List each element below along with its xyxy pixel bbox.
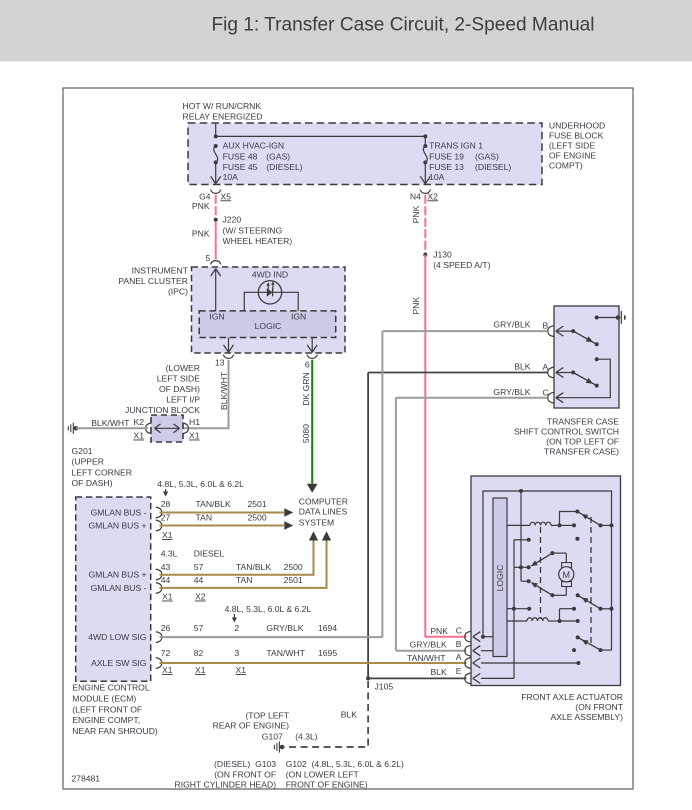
svg-text:AXLE SW SIG: AXLE SW SIG [91, 658, 147, 668]
svg-text:X2: X2 [195, 592, 206, 602]
svg-text:X5: X5 [221, 191, 232, 201]
svg-text:G201: G201 [72, 446, 93, 456]
svg-text:X2: X2 [427, 191, 438, 201]
svg-text:X1: X1 [162, 592, 173, 602]
svg-text:UNDERHOOD: UNDERHOOD [549, 121, 605, 131]
svg-text:PNK: PNK [192, 229, 210, 239]
svg-text:(LEFT SIDE: (LEFT SIDE [549, 141, 595, 151]
svg-text:GMLAN BUS -: GMLAN BUS - [91, 583, 147, 593]
svg-text:43: 43 [161, 562, 171, 572]
svg-text:WHEEL HEATER): WHEEL HEATER) [223, 236, 293, 246]
svg-text:SHIFT CONTROL SWITCH: SHIFT CONTROL SWITCH [514, 427, 619, 437]
svg-text:MODULE (ECM): MODULE (ECM) [72, 694, 136, 704]
svg-text:G102 (4.8L, 5.3L, 6.0L & 6.2L: G102 (4.8L, 5.3L, 6.0L & 6.2L) [286, 759, 404, 769]
svg-text:PNK: PNK [430, 626, 448, 636]
svg-text:GRY/BLK: GRY/BLK [266, 623, 303, 633]
svg-text:GMLAN BUS +: GMLAN BUS + [88, 521, 146, 531]
svg-text:PANEL CLUSTER: PANEL CLUSTER [118, 276, 188, 286]
svg-text:(LEFT FRONT OF: (LEFT FRONT OF [72, 704, 142, 714]
svg-text:(ON LOWER LEFT: (ON LOWER LEFT [286, 769, 360, 779]
svg-text:ENGINE COMPT,: ENGINE COMPT, [72, 715, 140, 725]
svg-text:(DIESEL): (DIESEL) [266, 162, 302, 172]
svg-text:5: 5 [206, 253, 211, 263]
svg-text:BLK: BLK [514, 362, 531, 372]
svg-text:M: M [563, 570, 571, 580]
svg-text:(DIESEL): (DIESEL) [475, 162, 511, 172]
svg-text:TAN: TAN [236, 575, 253, 585]
svg-text:(TOP LEFT: (TOP LEFT [245, 711, 289, 721]
svg-text:2500: 2500 [284, 562, 303, 572]
svg-text:INSTRUMENT: INSTRUMENT [132, 266, 189, 276]
svg-text:2501: 2501 [248, 499, 267, 509]
svg-text:TAN/BLK: TAN/BLK [196, 499, 231, 509]
svg-text:(GAS): (GAS) [475, 152, 499, 162]
svg-text:(GAS): (GAS) [266, 152, 290, 162]
svg-text:IGN: IGN [209, 312, 224, 322]
svg-text:(ON TOP LEFT OF: (ON TOP LEFT OF [546, 437, 619, 447]
svg-text:1695: 1695 [318, 648, 337, 658]
svg-text:X1: X1 [162, 665, 173, 675]
svg-text:H1: H1 [189, 417, 200, 427]
svg-text:LEFT I/P: LEFT I/P [166, 395, 200, 405]
svg-text:IGN: IGN [291, 312, 306, 322]
svg-text:2: 2 [234, 623, 239, 633]
svg-text:X1: X1 [236, 665, 247, 675]
svg-text:1694: 1694 [318, 623, 337, 633]
svg-text:FUSE 45: FUSE 45 [223, 162, 258, 172]
svg-text:3: 3 [234, 648, 239, 658]
svg-text:LEFT CORNER: LEFT CORNER [72, 467, 132, 477]
svg-text:13: 13 [215, 358, 225, 368]
svg-text:LOGIC: LOGIC [255, 321, 282, 331]
svg-text:2500: 2500 [248, 513, 267, 523]
svg-text:GMLAN BUS +: GMLAN BUS + [88, 570, 146, 580]
svg-text:C: C [456, 625, 462, 635]
svg-text:57: 57 [194, 623, 204, 633]
svg-text:C: C [543, 387, 549, 397]
svg-text:RIGHT CYLINDER HEAD): RIGHT CYLINDER HEAD) [175, 780, 277, 790]
svg-text:PNK: PNK [411, 205, 421, 223]
svg-text:B: B [543, 320, 549, 330]
svg-text:E: E [456, 666, 462, 676]
svg-text:X1: X1 [195, 665, 206, 675]
svg-text:COMPUTER: COMPUTER [299, 497, 348, 507]
svg-text:PNK: PNK [411, 296, 421, 314]
svg-text:B: B [456, 639, 462, 649]
svg-text:82: 82 [194, 648, 204, 658]
svg-text:(4 SPEED A/T): (4 SPEED A/T) [433, 260, 490, 270]
svg-text:DIESEL: DIESEL [194, 549, 225, 559]
svg-text:(UPPER: (UPPER [72, 457, 104, 467]
svg-text:A: A [543, 362, 549, 372]
svg-text:G107: G107 [262, 732, 283, 742]
svg-text:ENGINE CONTROL: ENGINE CONTROL [72, 683, 150, 693]
svg-text:FUSE 13: FUSE 13 [429, 162, 464, 172]
svg-text:278481: 278481 [71, 774, 100, 784]
svg-text:GRY/BLK: GRY/BLK [493, 387, 530, 397]
svg-text:FRONT OF ENGINE): FRONT OF ENGINE) [286, 780, 368, 790]
svg-text:DK GRN: DK GRN [301, 372, 311, 405]
svg-text:57: 57 [194, 562, 204, 572]
svg-text:FUSE 19: FUSE 19 [429, 152, 464, 162]
svg-text:2501: 2501 [284, 575, 303, 585]
svg-text:AUX HVAC-IGN: AUX HVAC-IGN [223, 141, 284, 151]
svg-text:OF DASH): OF DASH) [159, 384, 200, 394]
svg-text:4.3L: 4.3L [161, 549, 178, 559]
svg-text:X1: X1 [162, 530, 173, 540]
svg-text:RELAY ENERGIZED: RELAY ENERGIZED [183, 111, 263, 121]
svg-text:FUSE BLOCK: FUSE BLOCK [549, 131, 604, 141]
svg-text:GMLAN BUS -: GMLAN BUS - [91, 508, 147, 518]
svg-text:27: 27 [161, 513, 171, 523]
svg-text:N4: N4 [410, 191, 421, 201]
svg-text:TAN/WHT: TAN/WHT [266, 648, 305, 658]
svg-text:BLK: BLK [430, 667, 447, 677]
svg-text:TAN/BLK: TAN/BLK [236, 562, 271, 572]
svg-text:DATA LINES: DATA LINES [299, 507, 348, 517]
svg-text:BLK/WHT: BLK/WHT [219, 371, 229, 410]
svg-text:Fig 1: Transfer Case Circuit,: Fig 1: Transfer Case Circuit, 2-Speed Ma… [211, 15, 594, 36]
svg-text:FUSE 48: FUSE 48 [223, 152, 258, 162]
svg-text:(IPC): (IPC) [168, 287, 188, 297]
svg-text:4WD LOW SIG: 4WD LOW SIG [88, 632, 147, 642]
svg-text:FRONT AXLE ACTUATOR: FRONT AXLE ACTUATOR [521, 692, 623, 702]
svg-text:4.8L, 5.3L, 6.0L & 6.2L: 4.8L, 5.3L, 6.0L & 6.2L [157, 479, 244, 489]
svg-text:44: 44 [161, 575, 171, 585]
svg-text:(DIESEL) G103: (DIESEL) G103 [214, 759, 276, 769]
svg-text:TAN: TAN [196, 513, 213, 523]
svg-text:(ON FRONT OF: (ON FRONT OF [214, 769, 276, 779]
svg-text:TRANSFER CASE): TRANSFER CASE) [544, 447, 619, 457]
svg-text:72: 72 [161, 648, 171, 658]
svg-text:OF ENGINE: OF ENGINE [549, 151, 597, 161]
svg-text:A: A [456, 652, 462, 662]
svg-text:K2: K2 [133, 417, 144, 427]
svg-text:4WD IND: 4WD IND [252, 269, 288, 279]
svg-text:TRANSFER CASE: TRANSFER CASE [547, 417, 619, 427]
svg-text:(LOWER: (LOWER [166, 363, 200, 373]
svg-text:NEAR FAN SHROUD): NEAR FAN SHROUD) [72, 726, 158, 736]
svg-text:6: 6 [305, 360, 310, 370]
svg-text:10A: 10A [223, 172, 239, 182]
svg-text:5080: 5080 [301, 424, 311, 443]
svg-text:BLK/WHT: BLK/WHT [91, 418, 130, 428]
svg-text:PNK: PNK [192, 201, 210, 211]
svg-text:10A: 10A [429, 172, 445, 182]
svg-text:X1: X1 [189, 431, 200, 441]
svg-text:SYSTEM: SYSTEM [299, 517, 334, 527]
svg-text:GRY/BLK: GRY/BLK [410, 640, 447, 650]
svg-text:BLK: BLK [341, 710, 358, 720]
svg-text:AXLE ASSEMBLY): AXLE ASSEMBLY) [551, 712, 624, 722]
svg-text:X1: X1 [133, 431, 144, 441]
svg-text:26: 26 [161, 623, 171, 633]
svg-text:(W/ STEERING: (W/ STEERING [223, 225, 283, 235]
svg-text:28: 28 [161, 499, 171, 509]
svg-text:REAR OF ENGINE): REAR OF ENGINE) [213, 721, 290, 731]
svg-text:J105: J105 [375, 682, 394, 692]
svg-text:TAN/WHT: TAN/WHT [407, 653, 446, 663]
svg-text:J220: J220 [223, 215, 242, 225]
svg-text:G4: G4 [199, 191, 211, 201]
svg-text:OF DASH): OF DASH) [72, 478, 113, 488]
svg-text:4.8L, 5.3L, 6.0L & 6.2L: 4.8L, 5.3L, 6.0L & 6.2L [225, 604, 312, 614]
svg-text:COMPT): COMPT) [549, 161, 583, 171]
svg-text:(ON FRONT: (ON FRONT [575, 702, 623, 712]
svg-text:GRY/BLK: GRY/BLK [493, 319, 530, 329]
svg-text:44: 44 [194, 575, 204, 585]
svg-text:(4.3L): (4.3L) [295, 732, 318, 742]
svg-text:TRANS IGN 1: TRANS IGN 1 [429, 141, 483, 151]
svg-text:LEFT SIDE: LEFT SIDE [157, 374, 201, 384]
svg-text:J130: J130 [433, 250, 452, 260]
svg-text:HOT W/ RUN/CRNK: HOT W/ RUN/CRNK [183, 101, 262, 111]
svg-text:LOGIC: LOGIC [495, 565, 505, 592]
svg-text:JUNCTION BLOCK: JUNCTION BLOCK [125, 405, 200, 415]
